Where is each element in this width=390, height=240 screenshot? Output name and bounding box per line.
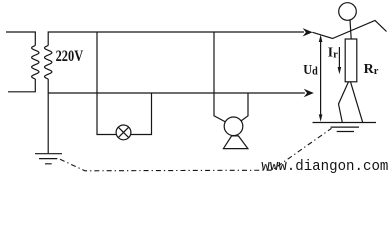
motor M (224, 117, 243, 136)
resistor Rr body (345, 39, 357, 82)
current arrow Ir line (338, 47, 340, 71)
wire primary top (6, 32, 35, 46)
wire neutral bus N (48, 79, 305, 93)
person legs (339, 82, 363, 123)
ground transformer neutral (35, 154, 62, 164)
wire primary bottom (8, 79, 35, 92)
current arrow Ir head (338, 67, 342, 74)
wire motor drop left (214, 32, 225, 122)
svg-text:Ir: Ir (328, 44, 338, 60)
wire lamp feed right (131, 93, 152, 135)
person head (339, 3, 357, 21)
ground person earth lines (331, 127, 360, 131)
svg-text:Ud: Ud (303, 63, 318, 78)
person neck (350, 20, 351, 39)
lamp EL (116, 125, 131, 140)
winding secondary T1 (45, 46, 52, 80)
motor base (223, 136, 248, 149)
winding primary T1 (32, 46, 39, 80)
svg-text:www.diangon.com: www.diangon.com (261, 159, 388, 175)
wire motor drop right (241, 93, 248, 121)
svg-text:220V: 220V (56, 48, 84, 65)
arrowhead neutral wire (304, 89, 314, 97)
arrowhead phase wire (303, 28, 313, 36)
voltage arrow Ud head bottom (319, 114, 323, 121)
wire phase bus L (48, 32, 304, 46)
ground person floor (313, 122, 377, 124)
person arm (313, 21, 387, 39)
voltage arrow Ud line (320, 37, 322, 119)
wire earthing conductor (47, 93, 49, 153)
earth boundary dash-dot line (60, 128, 332, 171)
svg-text:Rr: Rr (364, 62, 379, 77)
voltage arrow Ud head top (319, 35, 323, 42)
wire lamp drop left (97, 32, 116, 135)
